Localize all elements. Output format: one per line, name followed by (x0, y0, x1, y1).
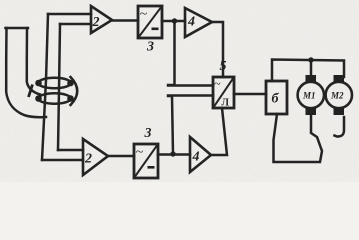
box3 bottom dash symbol (148, 166, 155, 169)
M1 bottom terminal (306, 108, 317, 116)
wire coil lead B (58, 24, 60, 150)
coil dot left lower (35, 95, 42, 102)
converter box 5 (213, 77, 234, 108)
paper noise texture (0, 0, 1, 1)
op-amp 2 bottom triangle (83, 139, 108, 175)
wire box5 to box6 (234, 93, 266, 96)
op-amp 4 top triangle (185, 8, 212, 37)
wire amp4 bottom output to box5 bottom (211, 108, 227, 155)
wire box3 to amp4 bottom (158, 153, 190, 156)
coil right connecting arc (71, 77, 78, 105)
box3 top dash symbol (152, 28, 159, 31)
box3 top diagonal (138, 6, 162, 38)
junction dot top wire (308, 57, 313, 62)
converter box 3 top (138, 6, 162, 38)
pipe top edge (6, 27, 29, 30)
sensor coil turn upper (38, 78, 71, 88)
wire lead A to top amp (48, 13, 91, 16)
wire lead B to top amp (60, 23, 91, 26)
wire box6 top to motors (272, 60, 344, 82)
wire junction riser bottom to box5 (168, 96, 213, 155)
wire lead B to bottom amp (58, 149, 83, 152)
coil dot right upper (67, 80, 74, 87)
op-amp 2 top triangle (91, 6, 112, 33)
wire box6 bottom to M1 bottom (274, 114, 323, 162)
wire amp4 top output to box5 top (212, 22, 223, 77)
wire amp2 to box3 bottom (108, 155, 134, 158)
label 1 (29, 85, 33, 98)
M1 top terminal (306, 75, 317, 83)
op-amp 4 bottom triangle (190, 137, 211, 172)
wire coil lead A (42, 14, 48, 160)
sensor coil turn lower (38, 93, 71, 103)
coil dot right lower (67, 95, 74, 102)
wire junction riser top to box5 (168, 21, 213, 86)
wire lead A to bottom amp (42, 159, 83, 162)
motor M1 circle (298, 82, 324, 108)
motor M2 circle (326, 82, 352, 108)
pipe outer outline (6, 28, 46, 117)
converter box 3 bottom (134, 144, 158, 178)
wire drop to M1 top (310, 60, 313, 75)
M2 top terminal (334, 75, 345, 83)
box5 diagonal (213, 77, 234, 108)
junction dot bottom path (170, 151, 175, 156)
wire amp2 to box3 top (112, 19, 138, 22)
box3 bottom diagonal (134, 144, 158, 178)
junction dot top path (172, 18, 177, 23)
pipe inner outline (27, 28, 40, 95)
coil dot left upper (35, 80, 42, 87)
block box 6 (266, 81, 287, 114)
M2 bottom terminal (334, 108, 345, 116)
wire box3 to amp4 top (162, 20, 185, 23)
wire M2 bottom hook (335, 117, 345, 137)
